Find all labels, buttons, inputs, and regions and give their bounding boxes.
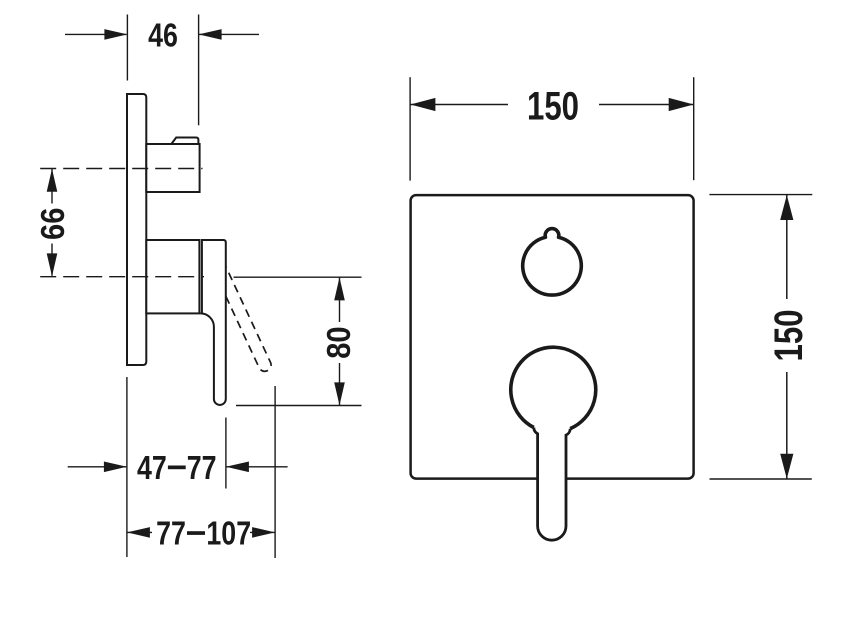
- lower valve centerline: [40, 276, 204, 278]
- svg-text:77: 77: [187, 450, 217, 486]
- extension line from dashed lever tip: [274, 386, 276, 558]
- lever handle alternate position (dashed): [226, 267, 271, 371]
- upper valve body (side view): [146, 144, 199, 192]
- dimension 80 line and arrows: [339, 278, 341, 406]
- dimension 47-77 line and arrows: [68, 466, 288, 468]
- extension line from lever tip: [225, 418, 227, 489]
- svg-text:150: 150: [527, 84, 579, 129]
- upper valve centerline: [40, 168, 202, 170]
- dimension 150 right: line and arrows: [786, 195, 788, 479]
- diverter knob with notch (small circle): [523, 229, 582, 296]
- dimension 46 extension line left: [126, 15, 128, 81]
- svg-text:66: 66: [34, 208, 71, 240]
- dimension 46 line and arrows: [65, 33, 259, 35]
- svg-text:150: 150: [766, 309, 811, 361]
- mixer lever stem fill (front view): [534, 428, 570, 541]
- lever handle (side view, solid): [200, 240, 225, 405]
- dimension 150 right: label: [766, 309, 811, 361]
- dimension 46 label: [148, 18, 178, 54]
- wall plate (side view): [127, 94, 146, 365]
- dimension 80 label: [320, 326, 357, 358]
- dimension 47-77 label: [137, 450, 167, 486]
- svg-text:80: 80: [320, 326, 357, 358]
- svg-text:47: 47: [137, 450, 167, 486]
- extension line below wall plate: [126, 377, 128, 557]
- dimension 77-107 line and arrows: [127, 531, 274, 533]
- dimension 66 label: [34, 208, 71, 240]
- mixer lever stem outline: [534, 428, 570, 541]
- dimension 46 extension line right: [198, 15, 200, 126]
- dimension 80 reference line top: [234, 276, 362, 278]
- upper valve handle (side view): [171, 138, 198, 145]
- dimension 150 top: line and arrows: [410, 104, 693, 106]
- dimension 66 line and arrows: [51, 169, 53, 276]
- dimension 150 right: reference lines: [709, 194, 812, 196]
- dimension 80 reference line bottom: [236, 405, 362, 407]
- svg-text:77: 77: [156, 516, 186, 552]
- dimension 150 top: extension lines: [409, 77, 411, 180]
- svg-text:107: 107: [206, 516, 251, 552]
- lower valve body (side view): [146, 240, 199, 313]
- svg-text:46: 46: [148, 18, 178, 54]
- dimension 77-107 label: [156, 516, 186, 552]
- dimension 150 top: label: [527, 84, 579, 129]
- face plate (front view): [411, 195, 694, 479]
- mixer knob (large circle, front view): [511, 347, 596, 428]
